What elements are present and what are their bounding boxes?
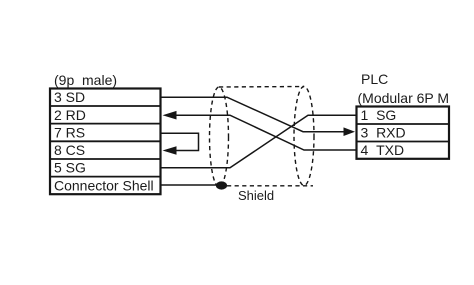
svg-text:2 RD: 2 RD <box>54 107 86 123</box>
CN2 row separator 2 <box>357 141 450 143</box>
svg-text:(Modular 6P M: (Modular 6P M <box>358 90 450 106</box>
CN1 row separator 1 <box>50 105 161 107</box>
wire SD to RXD: horizontal from CN1 pin 3 <box>161 97 345 132</box>
CN2 row separator 1 <box>357 123 450 125</box>
arrowhead into CN2 pin 3 RXD <box>344 127 356 136</box>
jumper wire RS to CS on CN1 <box>161 133 199 150</box>
svg-text:1 SG: 1 SG <box>361 107 397 123</box>
svg-text:Shield: Shield <box>238 188 274 203</box>
connector CN1 (9p male) body outline <box>50 89 161 195</box>
CN1 row separator 3 <box>50 140 161 142</box>
svg-text:3 RXD: 3 RXD <box>361 125 406 141</box>
CN1 row separator 5 <box>50 176 161 178</box>
wire connector shell to shield junction <box>161 184 218 186</box>
svg-text:Connector Shell: Connector Shell <box>54 177 154 193</box>
svg-text:(9p male): (9p male) <box>54 72 117 88</box>
svg-text:7 RS: 7 RS <box>54 124 85 140</box>
svg-text:3 SD: 3 SD <box>54 89 85 105</box>
connector CN2 (PLC modular 6P) body outline <box>357 107 450 159</box>
shield left ellipse (cable end, dashed) <box>210 87 229 187</box>
wire TXD to RD: from CN2 pin 4 <box>176 115 357 150</box>
shield bottom dashed line <box>227 185 313 187</box>
arrowhead into CN1 pin 2 RD <box>163 111 177 120</box>
shield top dashed line <box>219 86 304 89</box>
svg-text:5 SG: 5 SG <box>54 160 86 176</box>
CN1 row separator 4 <box>50 158 161 160</box>
CN1 row separator 2 <box>50 123 161 125</box>
arrowhead into CN1 pin 8 CS <box>163 146 177 155</box>
shield right ellipse (cable end, dashed) <box>294 87 314 186</box>
wire SG to SG: from CN1 pin 5 <box>161 115 357 168</box>
shield junction dot <box>216 181 227 189</box>
svg-text:4 TXD: 4 TXD <box>361 142 405 158</box>
svg-text:8 CS: 8 CS <box>54 142 85 158</box>
svg-text:PLC: PLC <box>361 71 388 87</box>
